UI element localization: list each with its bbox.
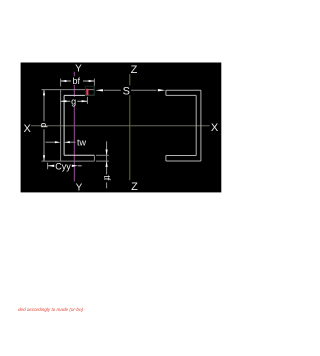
right channel outer bottom edge: [166, 160, 201, 162]
svg-text:X: X: [211, 122, 219, 134]
shear center leader right arrowhead: [158, 89, 166, 91]
shear center leader left line: [104, 89, 121, 91]
Z axis (olive dashed): [129, 74, 131, 180]
svg-text:ded accordingly to made (or-bo: ded accordingly to made (or-bo): [18, 307, 83, 312]
left channel outer top edge + d extension: [42, 89, 95, 91]
bf dimension left extension line: [60, 79, 62, 87]
left channel web inner face: [63, 95, 65, 155]
Y axis (centroid, magenta dashed): [73, 72, 75, 182]
left channel outer left edge (web back): [60, 90, 62, 162]
Cyy dimension line left: [48, 165, 55, 167]
Cyy arrow left: [48, 165, 54, 167]
svg-text:g: g: [71, 97, 76, 107]
red gauge grip bar: [86, 89, 88, 95]
tf lower extension line: [96, 160, 109, 162]
svg-text:Y: Y: [75, 63, 82, 74]
g dimension right extension line: [86, 97, 88, 104]
d dimension line (depth, vertical at left): [43, 90, 45, 122]
svg-text:Cyy: Cyy: [55, 161, 71, 171]
right channel top flange inner surface: [166, 94, 196, 96]
Cyy dimension line right: [78, 165, 82, 167]
svg-text:Y: Y: [76, 182, 83, 193]
g dimension line: [61, 100, 88, 102]
bf arrow left: [61, 80, 67, 82]
svg-text:X: X: [24, 123, 32, 135]
Cyy extension tick: [47, 163, 49, 170]
right channel outer top edge: [166, 89, 201, 91]
tf upper extension line: [96, 154, 109, 156]
svg-text:Z: Z: [131, 181, 138, 193]
tf arrow lower (points up): [106, 161, 108, 167]
Cyy arrow right: [72, 165, 78, 167]
d arrow bottom: [43, 155, 45, 161]
right channel bottom flange tip: [165, 156, 167, 162]
right channel top flange tip: [165, 90, 167, 95]
svg-text:tw: tw: [77, 138, 87, 148]
g arrow left: [61, 100, 67, 102]
right channel web inner face: [195, 95, 197, 155]
left channel bottom flange tip: [93, 155, 95, 161]
grip selection box (faint): [85, 86, 94, 95]
g text background: [70, 97, 77, 106]
tf arrow upper (points down): [106, 150, 108, 156]
svg-text:S: S: [123, 85, 130, 97]
shear center leader left arrowhead: [95, 89, 103, 91]
shear center leader right line: [131, 89, 157, 91]
X axis line: [31, 125, 210, 127]
tw dimension left tail: [46, 141, 55, 143]
g arrow right: [82, 100, 88, 102]
right channel outer right edge (web back): [200, 90, 202, 161]
bf dimension line: [61, 80, 95, 82]
bf arrow right: [89, 80, 95, 82]
tw arrow right (points left at web inner face): [64, 141, 70, 143]
tf dimension line: [106, 141, 108, 174]
svg-text:bf: bf: [72, 76, 80, 86]
S label: [122, 85, 131, 95]
tw right tail: [70, 141, 76, 143]
left channel top flange tip + bf extension: [93, 79, 95, 96]
right channel bottom flange inner surface: [166, 155, 196, 157]
bf text background: [71, 76, 83, 85]
CAD viewport black area: [21, 63, 222, 193]
d arrow top: [43, 90, 45, 96]
tw arrow left (points right at web back): [55, 141, 61, 143]
svg-text:d: d: [39, 123, 49, 128]
left channel outer bottom edge + d extension: [42, 160, 95, 162]
left channel bottom flange inner surface: [64, 154, 94, 156]
left channel top flange inner surface: [64, 94, 94, 96]
svg-text:Z: Z: [131, 64, 138, 76]
page background: [0, 0, 252, 356]
svg-text:tf: tf: [102, 175, 112, 181]
